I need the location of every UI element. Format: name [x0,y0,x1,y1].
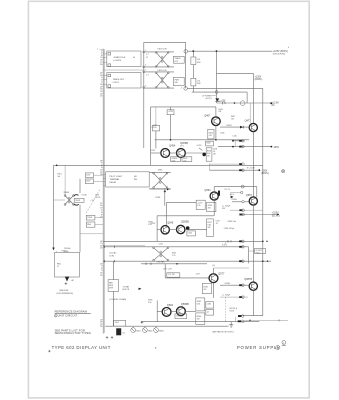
wire link rows [234,141,236,147]
capacitor CR454 box [171,157,181,163]
arrow to fan motor [139,288,142,290]
wire stubs bus to K601 [103,175,105,186]
resistor R565 box [207,202,216,211]
svg-text:UNIT CIRCUIT: UNIT CIRCUIT [58,314,78,318]
connector pin on bottom rail [239,240,267,243]
wire sec2 bottom rail [103,164,263,166]
wire y297.1 [220,296,248,298]
delay line box DL401 [107,51,141,67]
wire Q577 collector [213,268,215,274]
rail vertical LV supply [216,51,218,103]
rectifier dark blob [116,328,125,335]
svg-text:T404 FAN: T404 FAN [156,260,165,263]
svg-text:A B C: A B C [230,193,235,196]
bus pin number column [100,50,103,328]
wire y277.9 to Q577 [165,277,209,279]
wire Q467 emitter [215,126,217,140]
tick marks sec4 top [146,263,178,265]
wire Q467 collector [215,107,217,117]
resistor R445 box left [152,125,159,130]
svg-text:2.7k 1W: 2.7k 1W [168,274,175,276]
wire x248.5 drop [248,247,250,264]
wire -150V line y146.6 [218,146,271,148]
wire winding row 2 top [145,71,174,73]
junction dark dot sec3 [186,226,190,230]
svg-text:5: 5 [145,70,146,72]
wire inner riser left circuit [79,179,81,253]
node pins on left riser [143,50,146,89]
svg-text:3.9k: 3.9k [148,224,151,226]
wire y202.4 horizontal [167,201,197,203]
wire base feed Q587 y192.5 [230,192,241,194]
connector pin y297.1 [239,296,244,299]
wire x165.2 riser sec4 [164,264,166,278]
connector pin y170.2 [239,169,260,172]
box +125V label sec3 [196,200,205,209]
svg-text:57°C: 57°C [180,145,185,147]
wire sec3 lower second [103,245,145,247]
wire diode feed y127 [220,126,249,128]
ground symbol [229,322,233,328]
svg-text:MOTOR: MOTOR [123,289,130,291]
svg-text:3.9k: 3.9k [148,302,151,304]
wire sec2 left vertical [150,107,152,165]
svg-text:R584 5.6k: R584 5.6k [228,221,236,223]
svg-text:L445: L445 [233,135,237,137]
transistor Q564 [204,189,218,200]
resistor box R402 [173,77,184,85]
svg-text:2.2k: 2.2k [153,127,156,129]
svg-text:SEMICONDUCTOR TYPES: SEMICONDUCTOR TYPES [55,331,91,335]
svg-text:4: 4 [288,47,289,49]
power transformer T801 primary loop [55,252,80,277]
svg-text:CR584: CR584 [231,199,237,201]
svg-text:B602: B602 [148,330,152,332]
wire y233.8 to bus [80,233,103,235]
svg-text:TRACE: TRACE [175,57,182,60]
rail A bottom segment [252,290,254,315]
svg-text:THERMAL: THERMAL [110,178,121,181]
wire winding row 2 bottom [145,87,174,89]
svg-text:47: 47 [146,57,148,59]
wire Q564 emitter [213,200,215,216]
transistor Q477 [245,120,258,132]
svg-text:Q467: Q467 [204,114,211,117]
svg-text:150k: 150k [172,160,176,162]
wire R445 risers [155,107,157,149]
svg-text:D6: D6 [123,333,125,335]
wire y139.8 horizontal [155,139,250,141]
svg-text:60 Hz: 60 Hz [109,255,114,257]
wire stubs bus to DL402 [103,75,107,84]
resistor box 2.7k sec4 [167,273,180,277]
boxes right-mid sec4 [206,302,214,315]
bus J601 main vertical wire [102,49,104,334]
junction on +125V feed [192,50,194,52]
transistor Q455B [177,142,189,158]
svg-text:1.2k: 1.2k [197,205,200,207]
circled 2 page mark [282,341,286,346]
plug symbol dark [65,277,70,282]
wire sec3 winding bottom [149,188,171,190]
tick marks fan rows [104,246,115,263]
svg-text:20: 20 [100,64,102,66]
transformer T401 crossover [155,48,169,67]
wire y320.3 exit [244,319,288,321]
svg-text:L556: L556 [159,244,163,246]
svg-text:(DCPL): (DCPL) [206,98,212,100]
svg-text:CR441: CR441 [226,125,232,127]
wire y92 horizontal [192,91,247,93]
connector pin y285.2 [239,284,244,287]
junction marks on 12.6V line [223,102,236,105]
wire Q454 left [151,152,161,154]
svg-text:4: 4 [145,65,146,67]
svg-text:COILS: COILS [113,82,120,84]
svg-text:115V AC: 115V AC [109,252,117,255]
wire stubs bus to DL401 [103,54,107,63]
wire fan box drop [112,291,114,326]
wire y210.2 link [230,209,263,211]
fuse F401 circle [240,101,245,106]
svg-text:TK601: TK601 [75,200,80,202]
svg-text:23: 23 [100,248,102,250]
svg-text:2: 2 [283,343,284,345]
ground symbol circled-x [282,170,285,173]
terminal box B near bus [85,179,103,184]
junction y189.4 [167,189,169,191]
wire bottom rail y326.2 [105,325,228,327]
lamp B602 circle [143,326,153,332]
svg-text:(DECOUPLED): (DECOUPLED) [273,54,286,56]
svg-text:Q595B: Q595B [181,303,189,306]
svg-text:470: 470 [209,135,212,137]
svg-text:AC: AC [272,104,276,107]
resistor R586 tall box [196,313,205,324]
svg-text:S 10A: S 10A [82,193,88,196]
transformer T403 crossover [153,170,168,189]
rail vertical at 185.6 [185,42,187,88]
transformer T402 crossover [155,70,169,88]
transistor Q545 [161,222,174,234]
transistor Q587 [244,278,257,290]
transistor Q555B [177,221,190,234]
wire sec4 bottom rail y321.7 [141,321,259,323]
wire y215.8 horizontal [157,215,214,217]
svg-text:5 REF: 5 REF [155,197,161,199]
thermal cutout box [74,198,84,202]
switch contact arc lower [74,204,79,205]
svg-text:T403: T403 [158,170,164,172]
rail B bottom return [238,315,262,317]
svg-text:+125V: +125V [168,111,174,113]
resistor R443 box [208,129,214,139]
svg-text:Q587: Q587 [246,194,253,197]
note parts list [55,328,91,335]
plus marks bottom [106,336,113,338]
svg-text:.001: .001 [183,160,187,162]
svg-text:Q577: Q577 [218,273,225,276]
circled 5 after title [276,345,280,350]
resistor R583 box [202,283,211,293]
plus mark near title [48,350,50,352]
capacitor box sec3 [187,231,196,236]
svg-text:1W: 1W [197,319,200,321]
svg-text:C577: C577 [196,273,200,275]
svg-text:RELAY: RELAY [110,181,117,184]
wire y88 horizontal to rail B [187,87,262,89]
svg-text:44: 44 [133,57,135,59]
wire +125V branch to rail A [217,72,254,74]
svg-text:J9 +12.6V: J9 +12.6V [247,168,256,170]
wire Q595 right [185,311,196,313]
rail A lower segment [252,205,254,282]
junction below T403 [164,190,166,192]
wire left riser [143,42,145,148]
wire winding row 1 top [145,51,174,53]
node circle LV rail [215,91,218,94]
svg-text:C586 .047µF: C586 .047µF [224,228,235,230]
wire to LV box [249,250,255,252]
resistor R452 box [206,141,214,146]
resistor R585 tall box [196,298,205,311]
wire sec2 lower mid [208,164,210,171]
svg-text:+125V: +125V [150,150,156,152]
node circle y192.5 [241,191,243,193]
wire -150V upper link [232,140,244,142]
svg-text:11: 11 [57,266,59,268]
svg-text:(LOCATED ON FAN): (LOCATED ON FAN) [109,298,126,301]
transistor Q577 [209,273,225,283]
svg-text:B601: B601 [136,330,140,332]
wire R403 vertical links [192,51,194,92]
wire Q577 emitter [213,283,215,298]
svg-text:T601: T601 [115,322,119,324]
arrow down left feed [52,248,54,251]
wire Q564 collector [213,187,215,192]
box LV label on rail B [255,248,266,254]
svg-text:SW601: SW601 [64,192,70,194]
svg-text:(DCPL): (DCPL) [261,173,269,175]
svg-text:4.7: 4.7 [146,54,149,56]
terminal box D mid [86,222,103,227]
wire -150V dcpl line y170.2 [209,169,259,171]
diode CR584 [231,196,234,199]
wire sec2 top horizontal [151,106,216,108]
svg-text:PILOT LIGHT: PILOT LIGHT [110,176,123,178]
wire fan row top [103,246,248,248]
wire sec4 left vertical [156,300,158,321]
svg-text:2.7k: 2.7k [172,255,175,257]
wire Q594-Q595 link [171,311,177,313]
svg-text:10W: 10W [197,62,201,64]
svg-text:(DCPL): (DCPL) [272,215,280,217]
svg-text:3: 3 [145,50,146,52]
lamp B603 circle [154,326,164,332]
svg-text:(DCPL): (DCPL) [255,79,263,81]
plus mark left sec4 [141,321,144,324]
connector pin y246.8 [239,246,244,249]
wire sec4 top horizontal [141,263,207,265]
svg-text:Q587B: Q587B [244,278,252,281]
resistor R453 tall box [206,148,212,161]
switch actuator diagonal [86,189,100,213]
wire Q454-Q455 link [170,152,177,154]
wire y186.6 to rail [214,186,257,188]
wire left circuit left vertical [53,165,55,247]
svg-text:Q454: Q454 [169,144,176,147]
transistor Q587 [246,194,258,205]
node circle bottom of rail [184,87,188,91]
relay box K601 [106,172,150,187]
svg-text:REFERENCE DIAGRAM: REFERENCE DIAGRAM [55,310,88,314]
plus mark under plug [65,283,67,286]
transistor Q595B [177,303,190,315]
svg-text:+125V: +125V [196,145,202,147]
svg-text:GRATICULE: GRATICULE [114,56,126,59]
svg-text:25: 25 [100,96,102,98]
svg-text:CR585: CR585 [225,283,231,285]
svg-text:Q564: Q564 [204,189,211,192]
rail B vertical long [262,88,264,315]
wire diode feed y285.2 [220,284,249,286]
rail A mid segment [252,132,254,197]
rail A vertical upper [252,73,254,123]
capacitor dark mark sec3 [218,191,220,196]
connector pin y140.8 [239,140,244,143]
svg-text:.01: .01 [215,223,218,225]
transformer T601 box [114,320,126,326]
wire base feed Q477 [249,103,251,123]
wire y189.4 [149,188,171,190]
svg-text:15k: 15k [231,118,234,120]
switch SW601 crossover [64,195,74,206]
svg-text:TYPE 602 DISPLAY UNIT: TYPE 602 DISPLAY UNIT [52,345,111,350]
svg-text:R 1.2 k: R 1.2 k [225,189,231,191]
dashed vertical to ground [224,297,226,322]
svg-text:LIGHTS: LIGHTS [114,60,122,62]
svg-text:TK501: TK501 [87,217,92,219]
junctions y139.8 [170,139,217,141]
wire Q545 left [157,229,161,231]
node circle y186.6 [241,185,244,188]
wire top feed horizontal [144,41,186,43]
wire Q594 left [157,311,162,313]
resistor R441 box [167,110,174,115]
svg-text:Q545: Q545 [167,222,174,225]
transformer T404 crossover [153,247,169,261]
svg-text:470: 470 [208,208,211,210]
terminal box C mid [86,215,103,220]
wire T403 drop [164,189,166,206]
wire sec3 winding top [149,171,171,173]
capacitor box sec4 lower [175,314,187,319]
wire winding row 1 bottom [145,66,174,68]
terminal box A near bus [85,173,103,178]
connector pin y214.5 [239,213,279,216]
svg-text:4: 4 [55,316,56,318]
svg-text:TK501: TK501 [61,251,66,253]
delay line box DL402 [107,73,141,88]
transistor Q594 [162,304,173,316]
svg-text:25: 25 [100,326,102,328]
wire y92 drop [246,92,248,103]
svg-text:C545: C545 [188,233,192,235]
switch contact arc upper [74,195,79,196]
svg-text:R 470: R 470 [229,311,234,313]
fan motor box B601 [108,280,119,292]
wire +225V exit [240,214,278,216]
wire sec3 bottom rail [103,240,263,242]
transistor Q467 [204,114,220,125]
transistor Q454 [161,144,176,157]
wire node to base [244,201,249,203]
connector pin y261.2 [239,260,268,263]
resistor R404 box [191,78,201,86]
svg-text:10W: 10W [197,83,201,85]
resistor box R401 [173,56,184,63]
wire sec3 left vertical [156,216,158,242]
junction dark dot sec2 [202,153,206,157]
wire y268 sec4 [214,267,250,269]
wire fuse riser [64,165,66,195]
svg-text:R452: R452 [206,143,210,145]
capacitor C455 box [182,157,192,163]
svg-text:(FOR REFERENCE): (FOR REFERENCE) [57,293,74,295]
wire y164.1 link [209,163,239,165]
svg-text:1W: 1W [213,154,216,156]
note tolerance diagram [55,310,91,318]
wire fan row bottom [103,260,271,262]
node circle top of rail [184,50,188,54]
svg-text:T402 6.3V: T402 6.3V [157,70,167,72]
connector pin y164.1 [239,163,244,166]
svg-text:13: 13 [100,275,102,277]
svg-text:POWER SUPPLY: POWER SUPPLY [237,345,281,350]
svg-text:1W: 1W [207,156,210,158]
svg-text:-150V: -150V [273,147,280,149]
svg-text:Q594: Q594 [167,304,174,307]
svg-text:461: 461 [134,176,137,178]
svg-text:( SEE PARTS LIST NOTE ): ( SEE PARTS LIST NOTE ) [212,331,234,334]
svg-text:2W: 2W [219,111,222,113]
wire x256.8 drop [256,187,258,197]
diode CR401 [215,98,219,101]
svg-text:NOTE: NOTE [95,197,101,199]
svg-text:Q555B: Q555B [181,221,189,224]
svg-text:J7: J7 [225,243,227,245]
svg-text:470: 470 [203,289,206,291]
svg-text:C585: C585 [207,304,211,306]
svg-text:C+ 100µF: C+ 100µF [222,295,231,297]
bus J601 secondary wire [104,49,106,333]
diode CR441 [240,126,243,129]
svg-text:RNG: RNG [87,224,92,226]
svg-text:B603: B603 [159,330,163,332]
wire feed to transformer left [55,251,57,252]
wire x166.5 drop [166,202,168,225]
connector pins lower right [229,308,244,322]
svg-text:6.8k: 6.8k [197,304,200,306]
connector pin y210.2 [239,209,244,212]
svg-text:L577 +12V: L577 +12V [163,268,173,270]
junction dot y140.8 [232,140,234,142]
wire R441 risers [170,107,172,140]
svg-text:C445: C445 [220,133,224,135]
wire mid row from bus [103,69,145,71]
wire +125V feed horizontal [188,50,273,52]
wire 12.6V line [217,102,273,104]
